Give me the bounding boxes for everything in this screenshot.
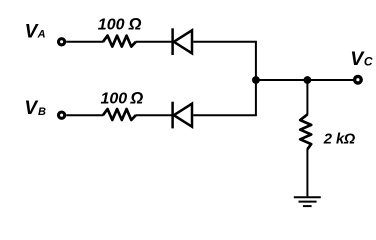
svg-text:Ω: Ω <box>343 132 356 148</box>
svg-text:A: A <box>37 29 46 41</box>
svg-text:100: 100 <box>101 91 128 108</box>
svg-text:Ω: Ω <box>129 90 143 108</box>
svg-text:B: B <box>38 106 46 118</box>
svg-text:100: 100 <box>98 17 125 34</box>
svg-text:Ω: Ω <box>128 16 142 34</box>
svg-text:V: V <box>25 21 39 42</box>
svg-text:2 k: 2 k <box>323 132 345 148</box>
svg-text:V: V <box>24 98 38 119</box>
svg-text:C: C <box>364 54 373 68</box>
